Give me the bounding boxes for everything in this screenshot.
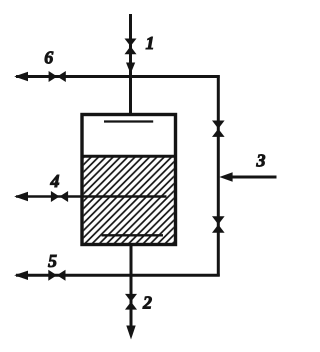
liquid surface line	[82, 155, 176, 158]
arrow: stream 1 into junction	[126, 63, 135, 74]
arrow: stream 2 outlet down	[126, 326, 135, 340]
wire: top horizontal header	[16, 75, 220, 78]
arrow: stream 4 outlet left	[14, 192, 28, 201]
vessel shell	[82, 115, 176, 245]
arrow: stream 6 outlet left	[14, 72, 28, 81]
svg-text:2: 2	[142, 293, 152, 313]
valve on bypass upper	[212, 121, 225, 137]
svg-text:6: 6	[44, 48, 53, 68]
arrow: stream 3 into bypass	[219, 172, 232, 181]
svg-text:5: 5	[48, 251, 57, 271]
svg-text:4: 4	[50, 171, 60, 191]
wire: right bypass vertical	[217, 75, 220, 276]
svg-text:3: 3	[256, 151, 266, 171]
wire: stream 3 inlet	[231, 176, 277, 179]
valve on bypass lower	[212, 216, 225, 232]
svg-text:1: 1	[146, 33, 155, 53]
wire: bottom outlet pipe (stream 2)	[130, 245, 133, 332]
valve on stream 4	[51, 191, 68, 202]
vessel internal bottom line	[102, 234, 164, 236]
wire: stream 4 pipe into vessel	[16, 195, 167, 198]
valve on stream 6	[49, 71, 66, 82]
vessel internal distributor line	[104, 120, 153, 122]
liquid hatch fill	[84, 156, 174, 243]
valve on stream 5	[48, 270, 65, 281]
wire: top inlet pipe (stream 1)	[129, 14, 132, 114]
arrow: stream 5 outlet left	[14, 271, 28, 280]
valve on stream 1	[125, 39, 137, 55]
wire: bottom horizontal header (stream 5)	[16, 274, 220, 277]
valve on stream 2	[125, 294, 137, 310]
